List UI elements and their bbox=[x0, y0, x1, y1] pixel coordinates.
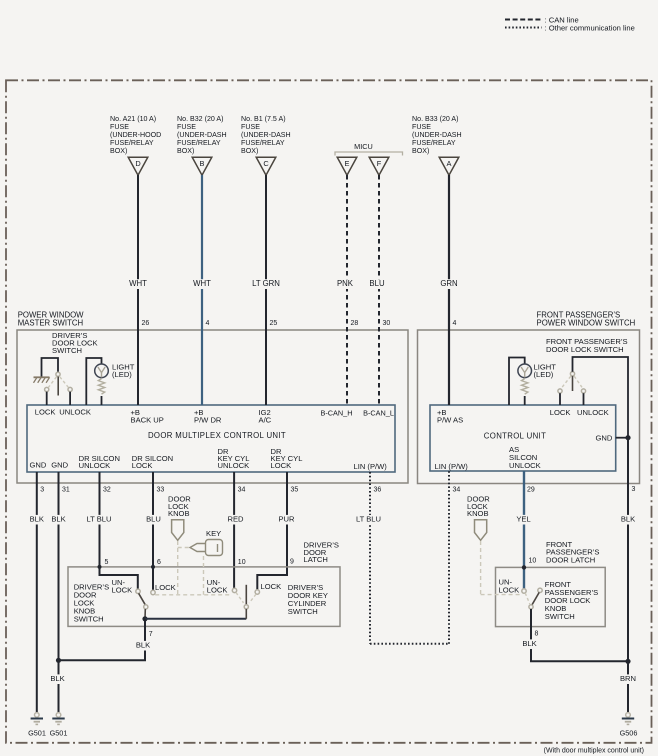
dashed knob linkages drivers bbox=[177, 541, 179, 595]
svg-text:DOOR LOCK SWITCH: DOOR LOCK SWITCH bbox=[546, 345, 624, 354]
ground G506 bbox=[626, 713, 631, 718]
svg-text:GND: GND bbox=[596, 434, 613, 443]
svg-text:BACK UP: BACK UP bbox=[131, 416, 164, 425]
svg-text:SWITCH: SWITCH bbox=[545, 612, 575, 621]
svg-text:GND: GND bbox=[51, 461, 68, 470]
svg-text:LT GRN: LT GRN bbox=[252, 279, 280, 288]
svg-text:UNLOCK: UNLOCK bbox=[218, 461, 250, 470]
svg-text:PUR: PUR bbox=[278, 515, 295, 524]
svg-text:No. B1 (7.5 A): No. B1 (7.5 A) bbox=[241, 115, 286, 123]
drivers door latch box bbox=[68, 567, 340, 627]
LED light passenger side bbox=[509, 358, 525, 406]
wire RED pin 34 to latch pin 10 bbox=[233, 472, 235, 588]
svg-text:10: 10 bbox=[238, 559, 246, 566]
svg-text:LOCK: LOCK bbox=[35, 408, 56, 417]
svg-text:34: 34 bbox=[238, 486, 246, 493]
svg-text:No. B32 (20 A): No. B32 (20 A) bbox=[177, 115, 224, 123]
svg-text:MICU: MICU bbox=[354, 142, 373, 151]
wire BLU CAN from F to pin 30 bbox=[378, 175, 380, 405]
svg-text:B-CAN_H: B-CAN_H bbox=[320, 409, 352, 418]
connector triangle B bbox=[192, 157, 212, 175]
junction at latch pin 7 bbox=[142, 616, 147, 621]
svg-text:A: A bbox=[447, 159, 452, 168]
svg-text:RED: RED bbox=[227, 515, 244, 524]
ground G501 right bbox=[56, 713, 61, 718]
svg-text:SWITCH: SWITCH bbox=[288, 607, 318, 616]
front passenger power window switch box bbox=[418, 330, 640, 484]
svg-text:BLK: BLK bbox=[30, 515, 44, 524]
svg-text:FUSE/RELAY: FUSE/RELAY bbox=[412, 139, 456, 147]
svg-text:E: E bbox=[345, 159, 350, 168]
wire LT BLU pin 32 to latch pin 5 bbox=[100, 472, 138, 589]
svg-text:LOCK: LOCK bbox=[271, 461, 292, 470]
svg-text:BOX): BOX) bbox=[177, 147, 194, 155]
svg-text:UNLOCK: UNLOCK bbox=[509, 461, 541, 470]
svg-text:(UNDER-HOOD: (UNDER-HOOD bbox=[110, 131, 161, 139]
svg-text:36: 36 bbox=[374, 486, 382, 493]
wire BLK latch pin 7 to ground junction bbox=[59, 619, 146, 661]
svg-text:LOCK: LOCK bbox=[499, 585, 520, 594]
door multiplex control unit box bbox=[27, 405, 395, 472]
connector triangle D bbox=[128, 157, 148, 175]
dashed knob linkage passenger bbox=[480, 541, 482, 595]
wire LIN LT BLU dotted pin 36 to pin 34 bbox=[369, 472, 371, 644]
svg-text:LIN (P/W): LIN (P/W) bbox=[354, 462, 388, 471]
svg-text:B: B bbox=[200, 159, 205, 168]
svg-text:G506: G506 bbox=[620, 728, 638, 737]
control unit box (passenger) bbox=[430, 405, 616, 471]
svg-text:(UNDER-DASH: (UNDER-DASH bbox=[177, 131, 227, 139]
wire PUR pin 35 to latch pin 9 bbox=[257, 472, 287, 590]
svg-text:DOOR LATCH: DOOR LATCH bbox=[546, 555, 595, 564]
wire BLK pin 3 passenger down bbox=[627, 438, 629, 662]
svg-text:BLK: BLK bbox=[136, 641, 150, 650]
svg-text:: Other communication line: : Other communication line bbox=[545, 23, 635, 32]
wire BLK GND pin 3 drivers bbox=[36, 472, 38, 713]
wire BRN to ground G506 bbox=[627, 661, 629, 712]
svg-text:BLK: BLK bbox=[51, 515, 65, 524]
passenger knob switch contacts and arm bbox=[522, 589, 526, 593]
svg-text:FUSE/RELAY: FUSE/RELAY bbox=[177, 139, 221, 147]
svg-text:5: 5 bbox=[105, 559, 109, 566]
svg-text:FUSE/RELAY: FUSE/RELAY bbox=[110, 139, 154, 147]
svg-text:KNOB: KNOB bbox=[467, 509, 489, 518]
svg-text:4: 4 bbox=[453, 320, 457, 327]
svg-text:BRN: BRN bbox=[620, 674, 636, 683]
passenger UNLOCK contact bbox=[581, 389, 585, 393]
svg-text:3: 3 bbox=[40, 486, 44, 493]
svg-text:CONTROL UNIT: CONTROL UNIT bbox=[484, 431, 546, 440]
svg-text:32: 32 bbox=[103, 486, 111, 493]
svg-text:BOX): BOX) bbox=[412, 147, 429, 155]
svg-text:8: 8 bbox=[535, 631, 539, 638]
switch arm and pivot bbox=[56, 372, 60, 376]
svg-text:(LED): (LED) bbox=[534, 370, 554, 379]
connection dots on latch boxes bbox=[98, 565, 102, 569]
svg-text:WHT: WHT bbox=[193, 279, 211, 288]
svg-text:LATCH: LATCH bbox=[304, 555, 328, 564]
svg-text:25: 25 bbox=[270, 320, 278, 327]
svg-text:LOCK: LOCK bbox=[132, 461, 153, 470]
svg-text:PNK: PNK bbox=[337, 279, 354, 288]
svg-text:UNLOCK: UNLOCK bbox=[577, 408, 609, 417]
svg-text:GRN: GRN bbox=[440, 279, 457, 288]
connector triangle E bbox=[337, 157, 357, 175]
wire color labels top bbox=[129, 279, 148, 289]
wire GRN fuse A to pin 4 passenger bbox=[448, 175, 450, 405]
svg-text:P/W AS: P/W AS bbox=[437, 416, 463, 425]
svg-text:BLK: BLK bbox=[621, 515, 635, 524]
svg-text:LOCK: LOCK bbox=[550, 408, 571, 417]
svg-text:3: 3 bbox=[632, 486, 636, 493]
svg-text:FUSE: FUSE bbox=[110, 123, 129, 131]
svg-text:FUSE: FUSE bbox=[241, 123, 260, 131]
svg-text:LOCK: LOCK bbox=[207, 585, 228, 594]
wire BLK passenger latch pin 8 bbox=[531, 609, 628, 661]
legend: Other communication line bbox=[505, 27, 542, 29]
svg-text:(UNDER-DASH: (UNDER-DASH bbox=[241, 131, 291, 139]
svg-text:26: 26 bbox=[142, 320, 150, 327]
svg-text:31: 31 bbox=[62, 486, 70, 493]
svg-text:(With door multiplex control u: (With door multiplex control unit) bbox=[544, 748, 644, 755]
svg-text:DOOR MULTIPLEX CONTROL UNIT: DOOR MULTIPLEX CONTROL UNIT bbox=[148, 431, 286, 440]
svg-text:10: 10 bbox=[529, 558, 537, 565]
svg-text:34: 34 bbox=[453, 486, 461, 493]
svg-text:LIN (P/W): LIN (P/W) bbox=[435, 462, 469, 471]
svg-text:UNLOCK: UNLOCK bbox=[79, 461, 111, 470]
svg-text:YEL: YEL bbox=[516, 515, 530, 524]
svg-text:G501: G501 bbox=[50, 728, 68, 737]
svg-text:WHT: WHT bbox=[129, 279, 147, 288]
ground G501 left bbox=[35, 713, 40, 718]
svg-text:No. A21 (10 A): No. A21 (10 A) bbox=[110, 115, 156, 123]
svg-text:(LED): (LED) bbox=[112, 370, 132, 379]
LED light drivers side bbox=[86, 358, 101, 405]
svg-text:7: 7 bbox=[149, 631, 153, 638]
passenger lock switch pivot and arm bbox=[570, 372, 574, 376]
UNLOCK contact bbox=[68, 387, 72, 391]
svg-text:BOX): BOX) bbox=[241, 147, 258, 155]
svg-text:FUSE: FUSE bbox=[412, 123, 431, 131]
svg-text:9: 9 bbox=[290, 559, 294, 566]
chassis ground of drivers door lock switch bbox=[34, 376, 50, 378]
svg-text:No. B33 (20 A): No. B33 (20 A) bbox=[412, 115, 459, 123]
svg-text:BLU: BLU bbox=[369, 279, 385, 288]
svg-text:A/C: A/C bbox=[259, 416, 272, 425]
wire LT GRN fuse C to pin 25 bbox=[265, 175, 267, 405]
svg-text:F: F bbox=[377, 159, 382, 168]
svg-text:FUSE: FUSE bbox=[177, 123, 196, 131]
svg-text:4: 4 bbox=[206, 320, 210, 327]
svg-text:G501: G501 bbox=[28, 728, 46, 737]
svg-text:UNLOCK: UNLOCK bbox=[59, 408, 91, 417]
svg-text:GND: GND bbox=[30, 461, 47, 470]
svg-text:BLK: BLK bbox=[50, 674, 64, 683]
svg-text:D: D bbox=[135, 159, 140, 168]
wire PNK CAN from E to pin 28 bbox=[346, 175, 348, 405]
connector triangle A bbox=[439, 157, 459, 175]
svg-text:FUSE/RELAY: FUSE/RELAY bbox=[241, 139, 285, 147]
svg-text:KEY: KEY bbox=[206, 529, 221, 538]
svg-text:P/W DR: P/W DR bbox=[194, 416, 222, 425]
wire BLU pin 33 to latch pin 6 bbox=[152, 472, 154, 590]
wire WHT fuse D to pin 26 bbox=[137, 175, 139, 405]
svg-text:C: C bbox=[263, 159, 269, 168]
wire BLK GND pin 31 bbox=[58, 472, 60, 713]
wire WHT fuse B to pin 4 bbox=[201, 175, 203, 405]
svg-text:30: 30 bbox=[383, 320, 391, 327]
svg-text:MASTER SWITCH: MASTER SWITCH bbox=[18, 318, 83, 327]
svg-text:SWITCH: SWITCH bbox=[74, 615, 104, 624]
LOCK contact bbox=[45, 387, 49, 391]
svg-text:35: 35 bbox=[291, 486, 299, 493]
svg-text:29: 29 bbox=[527, 486, 535, 493]
svg-text:6: 6 bbox=[157, 559, 161, 566]
passenger LOCK contact bbox=[558, 389, 562, 393]
legend: CAN line bbox=[505, 19, 542, 21]
svg-text:BOX): BOX) bbox=[110, 147, 127, 155]
svg-text:LOCK: LOCK bbox=[112, 585, 133, 594]
svg-text:LOCK: LOCK bbox=[155, 583, 176, 592]
svg-text:BLK: BLK bbox=[522, 639, 536, 648]
svg-text:B-CAN_L: B-CAN_L bbox=[363, 409, 394, 418]
svg-text:(UNDER-DASH: (UNDER-DASH bbox=[412, 131, 462, 139]
front passengers door latch box bbox=[496, 567, 606, 626]
connector triangle C bbox=[256, 157, 276, 175]
connector triangle F bbox=[369, 157, 389, 175]
GND wire to pin 3 bbox=[616, 437, 628, 439]
wire YEL pin 29 to passenger latch pin 10 bbox=[523, 471, 525, 589]
svg-text:LOCK: LOCK bbox=[261, 582, 282, 591]
svg-text:LT BLU: LT BLU bbox=[356, 515, 381, 524]
svg-text:SWITCH: SWITCH bbox=[52, 346, 82, 355]
svg-text:33: 33 bbox=[157, 486, 165, 493]
svg-text:KNOB: KNOB bbox=[168, 509, 190, 518]
power window master switch box bbox=[17, 330, 408, 483]
svg-text:POWER WINDOW SWITCH: POWER WINDOW SWITCH bbox=[537, 318, 636, 327]
svg-text:BLU: BLU bbox=[146, 515, 161, 524]
svg-text:28: 28 bbox=[351, 320, 359, 327]
svg-text:LT BLU: LT BLU bbox=[86, 515, 111, 524]
